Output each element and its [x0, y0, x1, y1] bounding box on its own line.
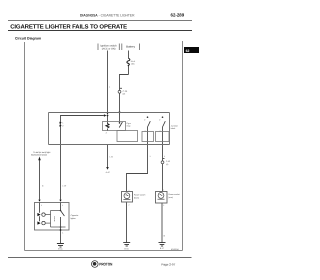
svg-text:3: 3 [62, 204, 63, 207]
svg-text:lighter: lighter [71, 217, 77, 220]
svg-text:2: 2 [106, 132, 107, 135]
svg-text:Power socket: Power socket [168, 193, 180, 196]
svg-text:2: 2 [129, 204, 130, 207]
svg-text:(front): (front) [134, 196, 139, 199]
svg-text:Cigar: Cigar [126, 122, 131, 125]
svg-text:1: 1 [163, 188, 164, 191]
svg-text:62W504: 62W504 [171, 248, 179, 251]
svg-text:illumination lamps: illumination lamps [31, 154, 47, 157]
svg-text:(2): (2) [123, 93, 126, 96]
svg-text:(rear): (rear) [168, 196, 173, 199]
svg-text:relay: relay [126, 125, 130, 128]
svg-text:2: 2 [159, 118, 160, 121]
svg-text:Circuit Diagram: Circuit Diagram [15, 36, 41, 40]
svg-text:5: 5 [41, 204, 42, 207]
svg-text:2: 2 [163, 204, 164, 207]
svg-text:PROTON: PROTON [99, 262, 112, 267]
svg-text:62-289: 62-289 [171, 13, 185, 18]
svg-text:(ACC or ON): (ACC or ON) [102, 47, 116, 50]
svg-text:Battery: Battery [126, 45, 135, 49]
svg-text:1: 1 [129, 189, 130, 192]
svg-text:Cigarette: Cigarette [71, 214, 79, 217]
svg-text:1: 1 [145, 129, 146, 132]
svg-text:2: 2 [62, 125, 63, 128]
svg-text:block: block [171, 127, 175, 130]
svg-text:DIAGNOSA - CIGARETTE LIGHTER: DIAGNOSA - CIGARETTE LIGHTER [80, 13, 135, 17]
svg-text:62: 62 [186, 49, 190, 53]
svg-text:Power socket: Power socket [134, 194, 146, 197]
svg-text:(4): (4) [166, 163, 169, 166]
svg-text:CIGARETTE LIGHTER FAILS TO OPE: CIGARETTE LIGHTER FAILS TO OPERATE [10, 23, 127, 30]
svg-text:2: 2 [144, 118, 145, 121]
svg-text:L-W: L-W [63, 184, 67, 187]
svg-text:Junction: Junction [171, 125, 178, 128]
svg-text:C-52: C-52 [166, 160, 170, 163]
svg-text:Page 2-97: Page 2-97 [161, 262, 175, 266]
svg-text:15A: 15A [131, 62, 135, 65]
svg-text:1: 1 [62, 121, 63, 124]
svg-text:1: 1 [160, 129, 161, 132]
